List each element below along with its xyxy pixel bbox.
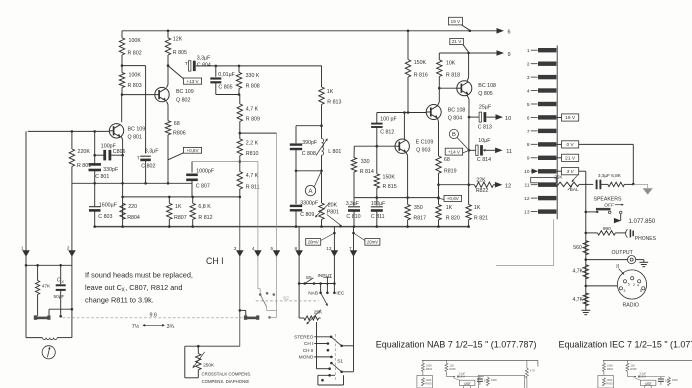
box 21V (pin9) [556, 154, 578, 161]
ground bus rail [93, 225, 470, 228]
record head CH I [240, 310, 260, 319]
resistor R809 [237, 95, 260, 134]
svg-text:S2: S2 [283, 296, 289, 302]
wire: dashed head link [63, 317, 244, 319]
resistor 47K [36, 265, 52, 316]
svg-text:SPEAKERS: SPEAKERS [594, 196, 623, 202]
svg-text:R810: R810 [246, 151, 259, 157]
box 0V (pin8) [556, 141, 578, 148]
svg-text:8: 8 [527, 142, 530, 148]
wire: Q804 collector [437, 88, 439, 106]
svg-text:+13 V: +13 V [186, 79, 199, 84]
svg-text:R817: R817 [413, 215, 426, 221]
svg-text:330: 330 [361, 159, 370, 165]
svg-text:C 808: C 808 [302, 151, 316, 157]
svg-text:C 813: C 813 [478, 125, 492, 131]
label CROSSTALK COMPENS. [202, 371, 252, 384]
svg-text:CH II: CH II [303, 348, 314, 353]
svg-text:OFF: OFF [604, 203, 614, 209]
wire: Q801 emitter column [121, 137, 122, 227]
switch S1 blade lower [330, 358, 343, 373]
wire: 21V line to arrow 9 [439, 52, 497, 55]
wire: 3V feed [579, 171, 587, 310]
svg-text:R903: R903 [606, 382, 613, 386]
arrow 9 output [497, 50, 511, 58]
svg-text:100K: 100K [129, 73, 142, 79]
speed arrows [132, 323, 175, 330]
svg-text:7: 7 [349, 246, 352, 251]
resistor R817 [405, 205, 426, 227]
capacitor C813 [469, 104, 496, 130]
wire: head to line 2 [49, 308, 73, 315]
svg-text:R822: R822 [476, 188, 489, 194]
svg-text:100K: 100K [425, 378, 431, 382]
wire: line to plug 8 [298, 227, 300, 318]
svg-text:9.6: 9.6 [150, 313, 158, 319]
svg-text:100K: 100K [607, 363, 613, 367]
svg-text:1K: 1K [175, 204, 182, 210]
svg-text:Equalization IEC 7 1/2–15 " (1: Equalization IEC 7 1/2–15 " (1.077 [559, 339, 692, 349]
capacitor C811 [371, 198, 385, 227]
chassis ground (bal) [633, 184, 653, 194]
switch speakers [586, 208, 622, 214]
svg-text:RADIO: RADIO [623, 302, 639, 308]
svg-text:100 pF: 100 pF [380, 117, 397, 123]
capacitor C804 [185, 56, 322, 72]
transistor Q801 [109, 124, 145, 141]
svg-text:C 810: C 810 [346, 214, 360, 220]
wire: emitter NFB bus y197 [354, 196, 440, 199]
capacitor 3,3uF (bal) [597, 173, 611, 189]
svg-text:R902: R902 [607, 367, 614, 371]
svg-text:9: 9 [527, 156, 530, 162]
switch S1 lower box [318, 374, 344, 385]
svg-text:330K: 330K [672, 378, 678, 382]
capacitor C808 [290, 126, 318, 171]
svg-text:220K: 220K [78, 149, 91, 155]
svg-text:P801: P801 [327, 210, 339, 216]
svg-text:C 802: C 802 [141, 163, 155, 169]
note text [85, 271, 193, 305]
svg-text:R807: R807 [174, 215, 187, 221]
svg-text:leave out C: leave out C [85, 283, 122, 292]
wire: Q805 collector [467, 53, 469, 81]
box 20mV (plug 7) [354, 233, 380, 245]
svg-text:990: 990 [603, 226, 611, 232]
thumbnail IEC network [598, 360, 692, 388]
resistor R803 [119, 73, 141, 90]
arrow plug 7 [349, 246, 357, 257]
svg-text:6: 6 [508, 30, 511, 36]
node NAB [308, 284, 322, 297]
svg-text:R 816: R 816 [414, 72, 428, 78]
svg-text:68: 68 [174, 121, 180, 127]
svg-text:If sound heads must be replace: If sound heads must be replaced, [85, 271, 193, 280]
svg-text:+14 V: +14 V [448, 149, 461, 154]
output jack [586, 250, 648, 267]
svg-text:C 811: C 811 [371, 214, 385, 220]
box 21V [450, 38, 469, 52]
svg-text:R 805: R 805 [173, 50, 187, 56]
svg-text:T: T [137, 155, 140, 161]
connector strip pins 1-13 [524, 46, 557, 220]
svg-text:+13V: +13V [645, 381, 652, 385]
erase coil [42, 338, 57, 340]
svg-text:Q 801: Q 801 [128, 135, 142, 141]
svg-text:X: X [61, 280, 65, 284]
box +0,6V (Q805) [437, 195, 461, 201]
wire: Q805 base [438, 87, 457, 90]
svg-text:21 V: 21 V [565, 156, 576, 162]
resistor R815 [374, 146, 397, 197]
svg-text:25K: 25K [314, 309, 323, 315]
svg-text:20mV: 20mV [366, 239, 379, 244]
svg-text:, C807, R812 and: , C807, R812 and [125, 283, 182, 292]
svg-text:R 814: R 814 [360, 169, 374, 175]
svg-text:INPUT: INPUT [318, 273, 332, 279]
svg-text:C 801: C 801 [95, 174, 109, 180]
svg-text:R804: R804 [127, 215, 140, 221]
svg-text:+0,6V: +0,6V [186, 148, 199, 153]
svg-text:R 803: R 803 [128, 83, 142, 89]
svg-text:390pF: 390pF [302, 140, 318, 146]
svg-text:100µF: 100µF [371, 201, 385, 207]
capacitor C803 [89, 183, 118, 226]
svg-text:19 V: 19 V [451, 19, 461, 24]
svg-text:C806: C806 [113, 149, 126, 155]
svg-text:+0,6V: +0,6V [447, 196, 460, 201]
svg-text:Q 903: Q 903 [416, 148, 430, 154]
svg-text:1000pF: 1000pF [196, 168, 215, 174]
svg-text:560: 560 [573, 245, 582, 251]
arrow plug 13 [326, 246, 338, 257]
svg-text:Equalization NAB 7 1/2–15 " (1: Equalization NAB 7 1/2–15 " (1.077.787) [376, 339, 537, 349]
capacitor C809 [290, 171, 319, 227]
svg-text:3,3µF: 3,3µF [145, 149, 159, 155]
svg-text:3,3µF: 3,3µF [197, 56, 211, 62]
svg-text:R 818: R 818 [446, 73, 460, 79]
resistor R818 [437, 53, 460, 88]
svg-text:7: 7 [527, 129, 530, 135]
wire: line to plug 7 [352, 227, 355, 372]
svg-text:Q 804: Q 804 [448, 116, 462, 122]
arrow 11 output [495, 148, 512, 155]
arrow plug 2 [67, 245, 76, 256]
svg-text:Q 802: Q 802 [176, 98, 190, 104]
svg-text:STEREO: STEREO [294, 335, 314, 340]
wire: Q801 collector node [121, 88, 155, 123]
inductor L801 [316, 126, 341, 171]
svg-text:1600µF: 1600µF [99, 202, 118, 208]
svg-text:12K: 12K [449, 363, 454, 367]
arrow plug 5 [270, 246, 280, 257]
capacitor C812 [371, 113, 397, 147]
transistor Q803 [395, 139, 433, 154]
wire: Q802 collector [167, 64, 170, 87]
svg-text:4,7K: 4,7K [573, 297, 584, 303]
svg-text:C 803: C 803 [98, 214, 112, 220]
potentiometer 250K crosstalk [185, 345, 240, 378]
svg-text:3: 3 [624, 289, 626, 293]
thumbnail NAB network [417, 360, 538, 388]
svg-text:C 814: C 814 [477, 157, 491, 163]
wire: tank top [296, 124, 323, 127]
wire: Q805 emitter column [467, 95, 470, 204]
svg-text:change R811 to 3.9k.: change R811 to 3.9k. [85, 295, 154, 304]
resistor R805 [165, 31, 187, 66]
svg-text:R 820: R 820 [446, 215, 460, 221]
svg-text:330pF: 330pF [103, 167, 119, 173]
wire: head box top [25, 264, 72, 267]
capacitor Cx [54, 265, 66, 317]
svg-text:11: 11 [506, 149, 512, 155]
wire: line to plug 13 [333, 227, 336, 293]
svg-text:13: 13 [524, 210, 530, 216]
svg-text:T: T [185, 61, 188, 67]
svg-text:OUTPUT: OUTPUT [612, 250, 634, 256]
svg-text:1K: 1K [327, 89, 334, 95]
svg-text:6,8K: 6,8K [611, 173, 622, 178]
resistor R822 [439, 178, 496, 195]
resistor R812 [190, 197, 213, 227]
svg-text:1K: 1K [446, 205, 453, 211]
resistor R814 [351, 146, 374, 197]
svg-text:S5: S5 [306, 275, 312, 281]
resistor 990 [586, 226, 626, 235]
capacitor C801 [89, 131, 119, 183]
svg-text:S1: S1 [337, 358, 343, 364]
resistor R811 [237, 162, 259, 197]
svg-text:2,2 K: 2,2 K [246, 140, 259, 146]
svg-text:R903: R903 [425, 382, 432, 386]
wire: dashed S2 link [256, 296, 319, 302]
svg-text:330 K: 330 K [246, 73, 260, 79]
svg-text:R 802: R 802 [128, 51, 142, 57]
svg-text:12K: 12K [630, 363, 635, 367]
svg-text:10K: 10K [446, 60, 456, 66]
svg-text:4: 4 [527, 89, 530, 95]
wire: NFB bus y197 [121, 196, 241, 199]
resistor 6,8K (bal) [608, 173, 634, 187]
svg-text:R 812: R 812 [198, 215, 212, 221]
input arrow [323, 277, 331, 294]
svg-text:7½: 7½ [132, 323, 140, 330]
svg-text:100K: 100K [129, 38, 142, 44]
transistor Q805 [457, 81, 496, 98]
svg-text:3: 3 [234, 246, 237, 251]
svg-text:68: 68 [444, 157, 450, 163]
arrow 10 output [496, 114, 512, 122]
svg-text:BC 108: BC 108 [448, 107, 466, 113]
wire: CH II link [496, 219, 554, 265]
arrow 6 output [497, 28, 511, 36]
wire: 0V feed [579, 144, 635, 185]
wire: Q803 emitter [406, 153, 409, 205]
svg-text:6: 6 [527, 115, 530, 121]
svg-text:2: 2 [633, 283, 635, 287]
wire: line to plug 1 [25, 131, 27, 265]
playback head CH I [34, 315, 51, 319]
svg-text:R902: R902 [426, 367, 433, 371]
switch S2 [258, 289, 277, 319]
svg-text:BAL: BAL [570, 187, 579, 192]
svg-text:25µF: 25µF [479, 104, 492, 110]
svg-text:BC 109: BC 109 [128, 127, 146, 133]
box 19V [448, 17, 469, 30]
capacitor C807 [186, 162, 215, 197]
svg-text:21 V: 21 V [452, 39, 462, 44]
svg-text:10µF: 10µF [478, 138, 491, 144]
svg-text:R 815: R 815 [383, 184, 397, 190]
svg-text:8: 8 [295, 246, 298, 251]
svg-text:25K: 25K [554, 175, 563, 180]
svg-text:COMPENS. DIAPHONIE: COMPENS. DIAPHONIE [202, 379, 250, 384]
svg-text:10: 10 [505, 116, 511, 122]
label CH I [206, 256, 224, 266]
svg-text:C 809: C 809 [300, 212, 314, 218]
svg-text:350: 350 [414, 205, 423, 211]
switch S1 row MONO [299, 355, 333, 360]
svg-text:+13V: +13V [464, 381, 471, 385]
svg-text:R 808: R 808 [246, 83, 260, 89]
switch S1 blade upper [331, 337, 343, 347]
svg-text:4: 4 [252, 246, 255, 251]
arrow plug 3 [234, 246, 244, 257]
ground (output divider) [581, 310, 590, 314]
wire: line to plug 2 [71, 183, 73, 265]
potentiometer 25K [299, 309, 323, 324]
svg-text:12: 12 [524, 196, 530, 202]
capacitor C802 [137, 149, 160, 184]
svg-text:C: C [57, 277, 61, 283]
svg-text:5: 5 [527, 102, 530, 108]
wire: S1 output to plug 7 [342, 346, 354, 372]
svg-text:9: 9 [508, 52, 511, 58]
capacitor C814 [469, 138, 495, 163]
svg-text:0,01µF: 0,01µF [218, 72, 235, 78]
svg-text:250K: 250K [203, 362, 215, 367]
box +0,6V (Q802) [168, 147, 202, 159]
transistor Q804 [426, 105, 465, 122]
wire: line to plug 4 [257, 162, 259, 289]
svg-text:12K: 12K [173, 36, 183, 42]
svg-text:1K: 1K [474, 205, 481, 211]
svg-text:R819: R819 [444, 169, 457, 175]
resistor R801 [69, 131, 91, 183]
wire: pot wiper to S1 [317, 322, 331, 370]
svg-text:4,7K: 4,7K [530, 369, 536, 373]
svg-text:C 804: C 804 [197, 62, 211, 68]
svg-text:100K: 100K [426, 363, 432, 367]
svg-text:150K: 150K [383, 175, 396, 181]
svg-text:19 V: 19 V [565, 115, 576, 121]
node: R809/R810 junction [239, 132, 277, 135]
svg-text:R 811: R 811 [246, 184, 260, 190]
capacitor C806 [93, 144, 125, 161]
svg-text:L 801: L 801 [328, 149, 341, 155]
svg-text:5: 5 [628, 282, 630, 286]
wire: +21V supply top rail [122, 30, 497, 33]
potentiometer P801 [315, 171, 342, 228]
wire: head box bottom [26, 265, 72, 337]
capacitor C810 [346, 198, 361, 227]
svg-text:330K: 330K [491, 378, 497, 382]
resistor R804 [120, 203, 140, 221]
resistor R810 [237, 133, 259, 161]
svg-text:R905: R905 [630, 367, 637, 371]
wire: line to plug 3 [239, 197, 242, 346]
svg-text:6,8 K: 6,8 K [198, 204, 211, 210]
svg-text:12: 12 [505, 184, 511, 190]
svg-text:E C109: E C109 [416, 140, 434, 146]
svg-text:R 813: R 813 [327, 99, 341, 105]
wire: feedback bus y183 [72, 182, 192, 185]
resistor R808 [236, 66, 260, 95]
wire: Q803 base line [354, 145, 395, 148]
resistor R821 [466, 205, 488, 227]
switch S1 row STEREO [294, 335, 332, 340]
svg-text:3: 3 [527, 75, 530, 81]
svg-text:B: B [452, 132, 456, 138]
node A [305, 171, 321, 196]
svg-text:CH I: CH I [206, 256, 224, 266]
svg-text:0 V: 0 V [566, 142, 574, 148]
wire: feedback to C802 [122, 66, 146, 154]
label Equalization NAB [376, 339, 537, 349]
svg-text:220: 220 [128, 204, 137, 210]
node IEC [333, 291, 345, 297]
svg-text:22K: 22K [476, 178, 486, 184]
resistor R802 [119, 31, 141, 57]
node B [449, 129, 469, 150]
svg-text:R 809: R 809 [246, 117, 260, 123]
radio DIN socket [586, 264, 647, 308]
svg-text:C 805: C 805 [218, 85, 232, 91]
potentiometer 25K BAL [554, 175, 593, 192]
box +14V [445, 148, 469, 155]
connector open pin [531, 177, 557, 182]
svg-text:3,3µF: 3,3µF [346, 201, 359, 207]
svg-text:47K: 47K [42, 284, 51, 289]
wire: Q804 base line [377, 111, 426, 114]
arrow plug 4 [252, 246, 262, 257]
wire: S5 row [298, 282, 336, 285]
svg-text:BC 108: BC 108 [478, 83, 496, 89]
svg-text:R905: R905 [449, 367, 456, 371]
svg-text:150K: 150K [414, 60, 427, 66]
svg-text:3300pF: 3300pF [300, 200, 319, 206]
svg-text:13: 13 [326, 246, 332, 251]
wire: tank bottom [295, 170, 323, 173]
svg-text:5: 5 [270, 246, 273, 251]
svg-text:NAB: NAB [308, 291, 318, 297]
resistor R816 [405, 31, 428, 113]
switch S5 [305, 275, 314, 284]
resistor R806 [165, 121, 185, 137]
transistor Q802 [155, 87, 194, 103]
resistor 560 [573, 241, 588, 255]
svg-text:50pF: 50pF [54, 294, 65, 299]
switch S1 row CH II [303, 348, 329, 353]
svg-text:3 V: 3 V [566, 169, 574, 175]
capacitor C805 [210, 66, 240, 96]
svg-text:BC 109: BC 109 [176, 89, 194, 95]
wire: dashed S1 link [334, 334, 336, 382]
wire: Q804 emitter [438, 118, 439, 156]
wire: Q801 base line [28, 130, 110, 133]
svg-text:1.077.850: 1.077.850 [629, 219, 656, 225]
switch NAB-IEC blade [321, 293, 328, 306]
